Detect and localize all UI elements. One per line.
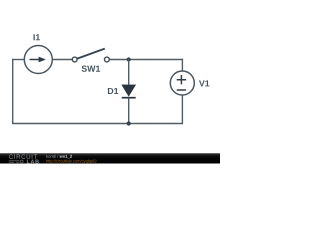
wire: bottom rail left of junction — [12, 123, 129, 125]
current source I1 — [24, 46, 52, 74]
wire: top rail from switch right terminal to top-right corner — [109, 59, 183, 61]
label V1 — [199, 80, 209, 86]
wire: left vertical rail — [12, 59, 14, 124]
label D1 — [108, 88, 118, 94]
watermark bar — [0, 153, 220, 163]
wire: top-left horizontal from corner to I1 left terminal — [13, 59, 25, 61]
voltage source V1 — [170, 71, 194, 95]
label SW1 — [82, 66, 101, 72]
wire: diode branch lower — [128, 98, 130, 124]
watermark text line 1 — [46, 155, 58, 158]
diode D1 — [122, 85, 136, 98]
wire: right vertical below V1 — [181, 95, 183, 124]
wire: right vertical above V1 — [181, 59, 183, 71]
wire: bottom rail right of junction — [129, 123, 183, 125]
label I1 — [33, 34, 40, 40]
wire: I1 right terminal to switch left terminal — [52, 59, 72, 61]
CircuitLab logo — [9, 154, 39, 163]
switch SW1 — [72, 49, 109, 62]
wire: diode branch upper — [128, 60, 130, 86]
node: bottom junction — [127, 121, 131, 125]
node: top junction — [127, 57, 131, 61]
watermark text line 2 — [46, 160, 96, 164]
